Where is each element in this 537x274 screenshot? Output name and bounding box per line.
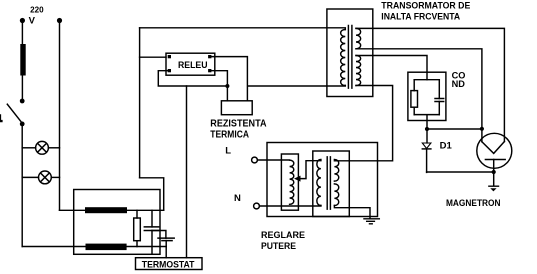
capacitor C2 plates bbox=[158, 238, 174, 241]
junction magnetron ground bbox=[492, 170, 496, 174]
variac wiper arrow bbox=[300, 161, 321, 179]
wire junction down to thermal resistor bbox=[226, 86, 228, 101]
lamp LP1 bbox=[36, 141, 49, 154]
wire diode bottom to magnetron cathode bbox=[427, 171, 494, 173]
wire node A down to fuse bbox=[21, 21, 23, 44]
resistor in appliance box bbox=[134, 218, 141, 241]
node B 220V neutral terminal bbox=[57, 18, 62, 23]
svg-text:REZISTENTA: REZISTENTA bbox=[210, 119, 266, 130]
ground reglare bbox=[364, 219, 379, 224]
reglare putere outer box bbox=[267, 143, 378, 217]
svg-text:MAGNETRON: MAGNETRON bbox=[446, 198, 501, 209]
wire relay bottom-left U loop bbox=[158, 71, 227, 86]
wire bottom rail into box bbox=[22, 246, 166, 248]
node A 220V line terminal bbox=[20, 18, 25, 23]
fuse F1 bbox=[20, 44, 25, 76]
wire feeder vertical bbox=[139, 28, 141, 178]
switch S1 upper contact bbox=[20, 99, 25, 104]
wire switch down left rail bbox=[21, 124, 23, 247]
svg-text:TERMOSTAT: TERMOSTAT bbox=[142, 259, 195, 270]
wire step up from winding to feeder vertical bbox=[140, 178, 164, 211]
diode D1 bbox=[426, 129, 428, 143]
variac box bbox=[281, 154, 298, 210]
capacitor COND box bbox=[408, 72, 446, 120]
capacitor C2 branch bbox=[152, 231, 166, 239]
wire lamp2 right lead bbox=[51, 176, 59, 178]
svg-text:PUTERE: PUTERE bbox=[261, 241, 296, 252]
wire capacitor box bottom bbox=[414, 115, 439, 129]
wire node B down right rail bbox=[59, 21, 61, 210]
transformer T1 secondary upper winding bbox=[356, 28, 361, 48]
capacitor C plates bbox=[435, 99, 444, 102]
wire top feeder to transformer primary bbox=[140, 28, 346, 30]
wire lamp1 right lead bbox=[48, 147, 59, 149]
junction magnetron left rail bbox=[480, 127, 484, 131]
relay terminal bottom-right bbox=[208, 69, 211, 72]
wire capacitor box internal tee bbox=[414, 79, 439, 81]
wire feeder tap to relay bbox=[140, 56, 166, 58]
transformer T1 core bbox=[348, 26, 352, 89]
junction relay output bbox=[225, 84, 229, 88]
svg-text:TRANSORMATOR DE: TRANSORMATOR DE bbox=[381, 1, 470, 12]
primary winding bar top bbox=[85, 207, 127, 213]
svg-text:N: N bbox=[234, 193, 241, 204]
switch S1 lower contact bbox=[20, 122, 25, 127]
ground magnetron bbox=[489, 172, 499, 186]
relay terminal bottom-left bbox=[168, 69, 171, 72]
capacitor C2 lead to termostat bbox=[165, 241, 167, 258]
lamp LP2 bbox=[39, 171, 52, 184]
termostat box bbox=[136, 258, 203, 270]
svg-text:TERMICA: TERMICA bbox=[210, 130, 249, 141]
wire lamp2 left lead bbox=[22, 176, 38, 178]
wire secondary lower top to capacitor box bbox=[356, 56, 427, 80]
isolation transformer secondary upper bbox=[334, 160, 338, 182]
isolation transformer primary bbox=[317, 160, 321, 206]
isolation transformer core bbox=[327, 157, 330, 209]
wire relay bottom-right to junction bbox=[210, 71, 228, 86]
wire right rail to primary winding bar bbox=[60, 209, 164, 211]
magnetron V1 envelope bbox=[477, 133, 512, 168]
transformer T1 primary winding bbox=[341, 30, 346, 86]
svg-text:INALTA FRCVENTA: INALTA FRCVENTA bbox=[381, 12, 460, 23]
svg-text:D1: D1 bbox=[440, 140, 453, 151]
svg-text:220: 220 bbox=[30, 4, 44, 14]
magnetron anode bar bbox=[485, 159, 505, 161]
isolation transformer box bbox=[313, 151, 350, 217]
wire secondary lower bottom to reglare bbox=[334, 86, 392, 161]
primary winding bar bottom bbox=[86, 244, 127, 251]
switch S1 blade bbox=[7, 104, 21, 121]
relay terminal top-right bbox=[208, 55, 211, 58]
wire L to variac bbox=[257, 159, 289, 161]
transformer T1 box bbox=[327, 9, 373, 97]
transformer T1 secondary lower winding bbox=[356, 56, 361, 86]
relay U1 RELEU box bbox=[166, 53, 215, 75]
wire junction to magnetron left rail bbox=[427, 128, 482, 130]
wire lamp1 left lead bbox=[22, 147, 35, 149]
wire relay junction down to termostat bbox=[186, 86, 188, 258]
capacitor C1 leads bbox=[151, 210, 153, 254]
svg-text:ND: ND bbox=[452, 79, 466, 89]
variac winding bbox=[290, 160, 294, 204]
svg-text:V: V bbox=[29, 16, 36, 27]
terminal N bbox=[254, 203, 260, 209]
main appliance box bbox=[74, 190, 160, 255]
magnetron anode lead bbox=[493, 160, 495, 173]
terminal L bbox=[252, 157, 258, 163]
resistor REZISTENTA TERMICA bbox=[221, 101, 252, 115]
wire fuse to switch bbox=[21, 76, 23, 100]
isolation transformer secondary lower bbox=[334, 184, 338, 206]
wire secondary bottom to ground bbox=[334, 206, 370, 219]
svg-text:L: L bbox=[225, 145, 231, 156]
svg-text:REGLARE: REGLARE bbox=[261, 230, 305, 241]
wire secondary top to magnetron right bbox=[356, 28, 504, 141]
wire secondary upper bottom to magnetron left bbox=[356, 49, 482, 142]
capacitor C1 plates bbox=[144, 227, 158, 231]
resistor in COND box bbox=[411, 91, 418, 108]
junction diode top bbox=[425, 127, 429, 131]
magnetron filament V bbox=[482, 142, 505, 154]
wire relay top-right contact to transformer bbox=[210, 57, 346, 101]
relay terminal top-left bbox=[168, 55, 171, 58]
wire N to variac and primary bottom bbox=[259, 205, 321, 208]
svg-text:RELEU: RELEU bbox=[178, 60, 208, 71]
